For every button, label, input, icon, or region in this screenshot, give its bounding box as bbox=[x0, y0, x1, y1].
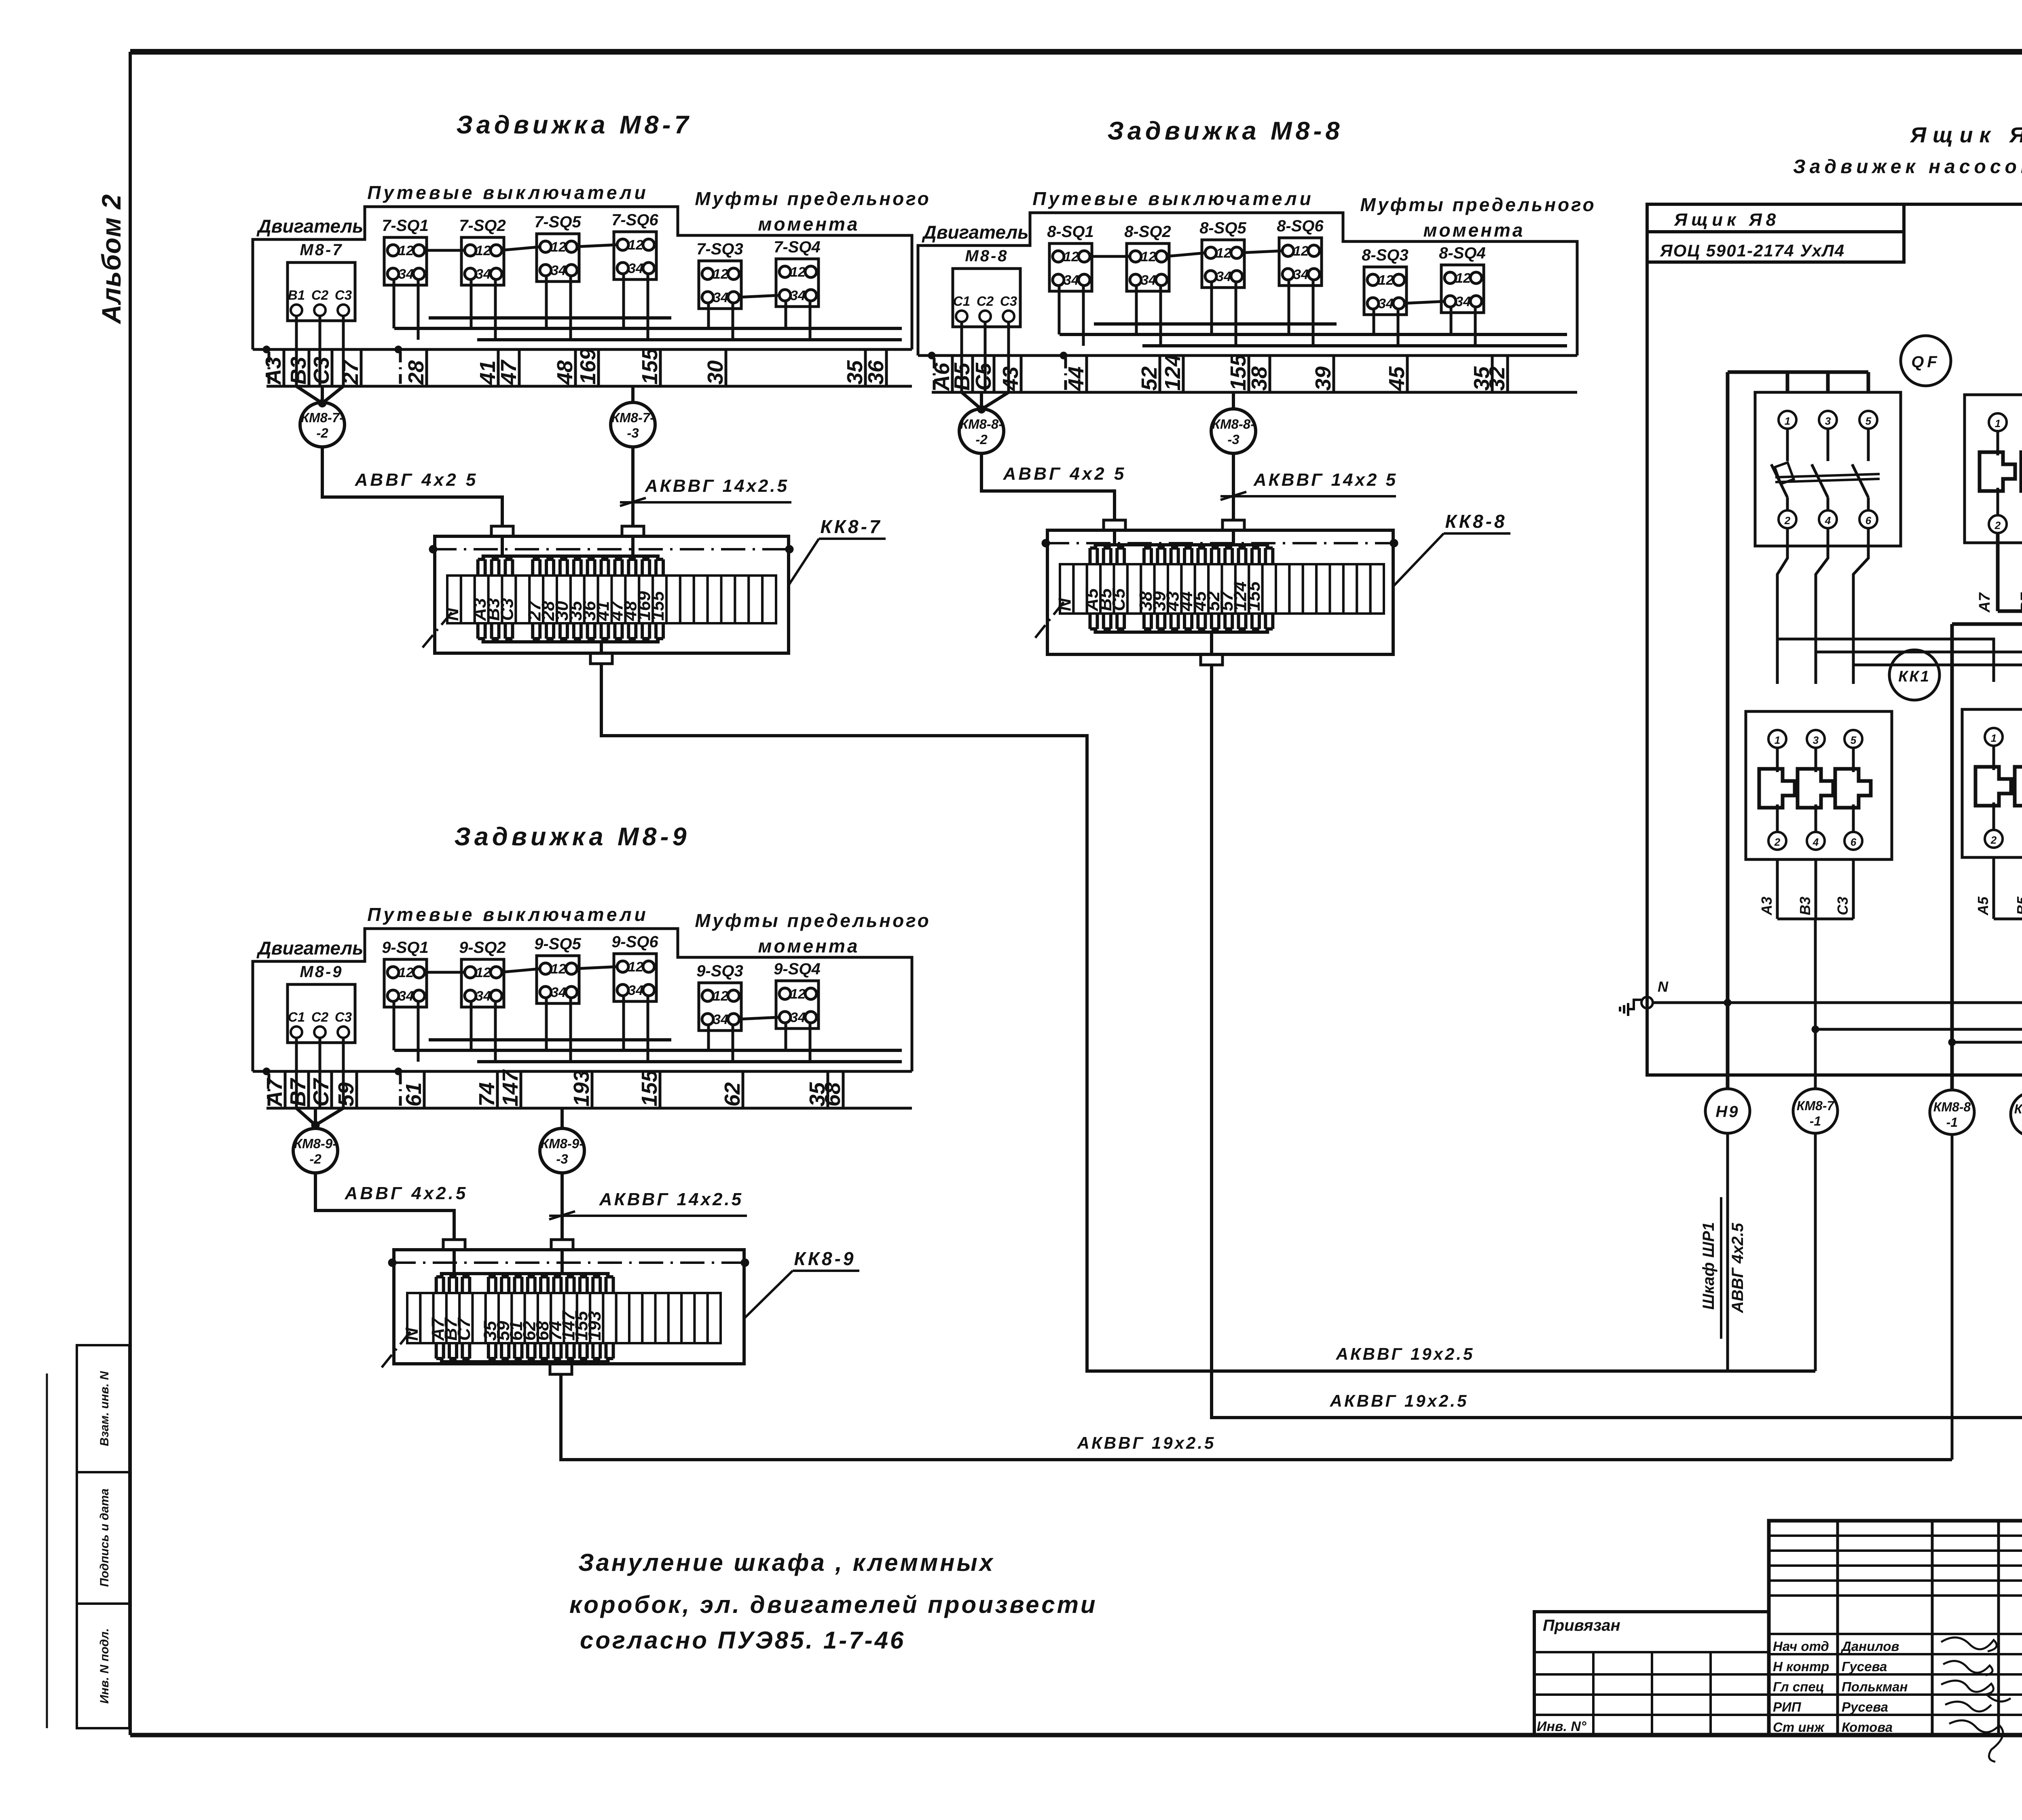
svg-text:С3: С3 bbox=[335, 288, 352, 303]
svg-text:7-SQ3: 7-SQ3 bbox=[696, 240, 743, 258]
svg-text:М8-7: М8-7 bbox=[300, 241, 343, 259]
svg-text:КК1: КК1 bbox=[1898, 668, 1931, 685]
svg-text:АКВВГ 19х2.5: АКВВГ 19х2.5 bbox=[1330, 1391, 1469, 1410]
svg-text:АВВГ 4х2.5: АВВГ 4х2.5 bbox=[1729, 1223, 1747, 1313]
svg-text:N: N bbox=[1658, 978, 1669, 995]
svg-text:12: 12 bbox=[713, 988, 728, 1004]
svg-text:Гусева: Гусева bbox=[1842, 1659, 1887, 1674]
svg-text:2: 2 bbox=[1784, 514, 1791, 527]
svg-text:Нач отд: Нач отд bbox=[1773, 1639, 1829, 1654]
svg-text:-2: -2 bbox=[309, 1151, 321, 1166]
svg-text:59: 59 bbox=[334, 1082, 358, 1107]
svg-text:124: 124 bbox=[1161, 354, 1185, 391]
svg-text:КМ8-9-: КМ8-9- bbox=[294, 1136, 337, 1151]
svg-text:155: 155 bbox=[637, 1070, 662, 1107]
svg-text:8-SQ2: 8-SQ2 bbox=[1124, 223, 1171, 241]
svg-text:2: 2 bbox=[1774, 836, 1781, 848]
svg-text:6: 6 bbox=[1851, 836, 1857, 848]
svg-text:39: 39 bbox=[1311, 366, 1335, 391]
svg-text:АВВГ 4х2 5: АВВГ 4х2 5 bbox=[1003, 464, 1127, 484]
svg-text:43: 43 bbox=[998, 366, 1023, 391]
svg-text:12: 12 bbox=[713, 267, 728, 282]
svg-text:-3: -3 bbox=[1227, 432, 1239, 447]
svg-text:АКВВГ 19х2.5: АКВВГ 19х2.5 bbox=[1336, 1344, 1475, 1363]
svg-text:7-SQ4: 7-SQ4 bbox=[774, 238, 821, 256]
svg-text:С3: С3 bbox=[1834, 897, 1851, 915]
svg-text:С3: С3 bbox=[497, 598, 517, 621]
svg-text:С5: С5 bbox=[1109, 588, 1129, 611]
svg-text:Полькман: Полькман bbox=[1842, 1679, 1908, 1694]
svg-text:А7: А7 bbox=[1976, 592, 1993, 613]
svg-text:согласно ПУЭ85. 1-7-46: согласно ПУЭ85. 1-7-46 bbox=[580, 1627, 905, 1654]
svg-text:Котова: Котова bbox=[1842, 1720, 1893, 1735]
svg-text:12: 12 bbox=[1293, 243, 1309, 259]
svg-text:34: 34 bbox=[551, 263, 566, 278]
svg-text:С3: С3 bbox=[335, 1009, 352, 1024]
svg-text:Н контр: Н контр bbox=[1773, 1659, 1829, 1674]
svg-text:А5: А5 bbox=[1975, 896, 1991, 916]
svg-text:АВВГ 4х2.5: АВВГ 4х2.5 bbox=[345, 1183, 468, 1203]
svg-text:3: 3 bbox=[1825, 415, 1831, 427]
svg-text:34: 34 bbox=[1216, 269, 1231, 284]
svg-text:5: 5 bbox=[1865, 415, 1872, 427]
svg-text:В3: В3 bbox=[1797, 897, 1813, 915]
svg-text:27: 27 bbox=[338, 359, 363, 385]
svg-text:В3: В3 bbox=[286, 357, 311, 385]
svg-text:Альбом 2: Альбом 2 bbox=[96, 194, 126, 325]
svg-text:С5: С5 bbox=[971, 362, 996, 391]
svg-text:12: 12 bbox=[1455, 271, 1471, 286]
svg-text:Путевые выключатели: Путевые выключатели bbox=[1032, 188, 1314, 209]
svg-text:КМ8-8: КМ8-8 bbox=[1933, 1100, 1971, 1114]
svg-text:С3: С3 bbox=[1000, 294, 1017, 309]
svg-text:АКВВГ 14х2.5: АКВВГ 14х2.5 bbox=[599, 1189, 743, 1209]
svg-text:30: 30 bbox=[703, 360, 728, 385]
svg-text:Двигатель: Двигатель bbox=[256, 938, 364, 959]
svg-text:КК8-9: КК8-9 bbox=[794, 1248, 856, 1269]
svg-text:момента: момента bbox=[1423, 220, 1525, 241]
svg-text:9-SQ2: 9-SQ2 bbox=[459, 939, 506, 957]
svg-text:34: 34 bbox=[398, 988, 414, 1004]
svg-text:В7: В7 bbox=[286, 1077, 310, 1107]
svg-text:34: 34 bbox=[1378, 296, 1394, 311]
svg-text:КМ8-7-: КМ8-7- bbox=[301, 410, 344, 425]
svg-text:34: 34 bbox=[1064, 273, 1079, 288]
svg-text:32: 32 bbox=[1485, 366, 1509, 391]
svg-text:Путевые выключатели: Путевые выключатели bbox=[367, 904, 649, 925]
svg-text:12: 12 bbox=[398, 965, 414, 980]
svg-text:52: 52 bbox=[1137, 366, 1161, 391]
svg-text:169: 169 bbox=[576, 348, 600, 385]
svg-text:34: 34 bbox=[476, 267, 491, 282]
svg-text:12: 12 bbox=[628, 237, 643, 253]
svg-text:12: 12 bbox=[628, 959, 643, 975]
svg-text:68: 68 bbox=[821, 1082, 845, 1107]
svg-text:8-SQ4: 8-SQ4 bbox=[1439, 244, 1486, 262]
svg-text:С2: С2 bbox=[311, 288, 329, 303]
svg-text:Задвижка М8-8: Задвижка М8-8 bbox=[1107, 117, 1343, 145]
svg-text:КК8-8: КК8-8 bbox=[1445, 511, 1507, 532]
svg-text:QF: QF bbox=[1911, 353, 1940, 371]
svg-text:Путевые выключатели: Путевые выключатели bbox=[367, 182, 649, 203]
svg-text:12: 12 bbox=[551, 239, 566, 255]
svg-text:7-SQ1: 7-SQ1 bbox=[382, 217, 429, 235]
svg-text:Задвижек насосов песколо: Задвижек насосов песколовок bbox=[1793, 156, 2022, 178]
svg-text:1: 1 bbox=[1775, 734, 1780, 746]
svg-text:В5: В5 bbox=[950, 362, 974, 391]
svg-text:В1: В1 bbox=[288, 288, 305, 303]
svg-text:В5: В5 bbox=[2014, 896, 2022, 915]
svg-text:35: 35 bbox=[843, 360, 867, 385]
svg-text:Шкаф ШР1: Шкаф ШР1 bbox=[1700, 1222, 1717, 1310]
svg-text:момента: момента bbox=[758, 935, 859, 957]
svg-text:34: 34 bbox=[476, 988, 491, 1004]
svg-text:74: 74 bbox=[475, 1082, 499, 1107]
svg-text:34: 34 bbox=[628, 983, 643, 998]
svg-text:1: 1 bbox=[1991, 732, 1997, 744]
svg-text:4: 4 bbox=[1813, 836, 1819, 848]
svg-text:34: 34 bbox=[1455, 294, 1471, 309]
svg-text:3: 3 bbox=[1813, 734, 1819, 746]
svg-text:Инв. N подл.: Инв. N подл. bbox=[98, 1628, 111, 1704]
svg-text:2: 2 bbox=[1995, 519, 2001, 531]
svg-text:8-SQ1: 8-SQ1 bbox=[1047, 223, 1094, 241]
svg-text:8-SQ3: 8-SQ3 bbox=[1362, 246, 1409, 264]
svg-text:Данилов: Данилов bbox=[1840, 1639, 1899, 1654]
svg-text:38: 38 bbox=[1247, 366, 1271, 391]
svg-text:155: 155 bbox=[1226, 354, 1250, 391]
svg-text:12: 12 bbox=[1378, 273, 1394, 288]
svg-text:155: 155 bbox=[1244, 581, 1264, 611]
svg-text:С1: С1 bbox=[288, 1009, 305, 1024]
svg-text:С1: С1 bbox=[953, 294, 970, 309]
svg-text:45: 45 bbox=[1385, 366, 1409, 391]
svg-text:9-SQ6: 9-SQ6 bbox=[611, 933, 658, 951]
svg-text:34: 34 bbox=[398, 267, 414, 282]
svg-text:12: 12 bbox=[398, 243, 414, 258]
svg-text:АКВВГ 19х2.5: АКВВГ 19х2.5 bbox=[1077, 1433, 1216, 1452]
svg-text:РИП: РИП bbox=[1773, 1699, 1802, 1714]
svg-text:193: 193 bbox=[585, 1311, 605, 1341]
svg-text:7-SQ6: 7-SQ6 bbox=[611, 211, 658, 229]
svg-text:Зануление шкафа , клеммных: Зануление шкафа , клеммных bbox=[578, 1549, 995, 1576]
svg-text:Н9: Н9 bbox=[1715, 1103, 1739, 1121]
svg-text:КМ8-8-: КМ8-8- bbox=[960, 417, 1003, 432]
svg-text:12: 12 bbox=[476, 243, 491, 258]
svg-text:Инв. N°: Инв. N° bbox=[1537, 1719, 1586, 1734]
svg-text:С7: С7 bbox=[309, 1077, 333, 1107]
svg-text:6: 6 bbox=[1865, 514, 1872, 527]
svg-text:12: 12 bbox=[790, 265, 806, 280]
svg-text:7-SQ5: 7-SQ5 bbox=[534, 213, 581, 231]
svg-text:9-SQ3: 9-SQ3 bbox=[696, 962, 743, 980]
svg-text:9-SQ1: 9-SQ1 bbox=[382, 939, 429, 957]
svg-text:155: 155 bbox=[638, 348, 662, 385]
svg-text:7-SQ2: 7-SQ2 bbox=[459, 217, 506, 235]
svg-text:155: 155 bbox=[648, 591, 668, 621]
svg-text:12: 12 bbox=[1216, 245, 1231, 261]
svg-text:А3: А3 bbox=[1758, 897, 1775, 916]
svg-text:34: 34 bbox=[628, 261, 643, 276]
svg-text:КМ8-9-: КМ8-9- bbox=[541, 1136, 584, 1151]
svg-text:Муфты предельного: Муфты предельного bbox=[695, 910, 931, 931]
svg-text:КМ8-8-: КМ8-8- bbox=[1212, 417, 1255, 432]
svg-text:С7: С7 bbox=[454, 1317, 474, 1341]
svg-text:коробок, эл. двигателей прои: коробок, эл. двигателей произвести bbox=[569, 1591, 1098, 1618]
svg-text:А7: А7 bbox=[262, 1077, 287, 1107]
svg-text:АКВВГ 14х2.5: АКВВГ 14х2.5 bbox=[645, 476, 789, 496]
svg-text:4: 4 bbox=[1825, 514, 1831, 527]
svg-text:47: 47 bbox=[497, 359, 521, 385]
svg-text:5: 5 bbox=[1851, 734, 1857, 746]
svg-text:С2: С2 bbox=[311, 1009, 329, 1024]
svg-text:-2: -2 bbox=[975, 432, 988, 447]
svg-text:-1: -1 bbox=[1810, 1114, 1821, 1128]
svg-text:Привязан: Привязан bbox=[1543, 1617, 1620, 1634]
svg-text:2: 2 bbox=[1990, 834, 1997, 846]
svg-text:Муфты предельного: Муфты предельного bbox=[695, 188, 931, 209]
svg-text:9-SQ5: 9-SQ5 bbox=[534, 935, 581, 953]
svg-text:62: 62 bbox=[720, 1082, 745, 1107]
svg-text:1: 1 bbox=[1995, 417, 2001, 430]
svg-text:44: 44 bbox=[1064, 366, 1088, 391]
svg-text:34: 34 bbox=[713, 1012, 728, 1027]
svg-text:34: 34 bbox=[713, 290, 728, 305]
svg-text:-3: -3 bbox=[556, 1151, 568, 1166]
svg-text:АВВГ 4х2 5: АВВГ 4х2 5 bbox=[355, 470, 478, 490]
svg-text:Взам. инв. N: Взам. инв. N bbox=[98, 1371, 111, 1446]
svg-text:-3: -3 bbox=[627, 425, 639, 440]
svg-text:12: 12 bbox=[476, 965, 491, 980]
svg-text:ЯОЦ 5901-2174 УхЛ4: ЯОЦ 5901-2174 УхЛ4 bbox=[1660, 241, 1845, 260]
svg-text:С2: С2 bbox=[977, 294, 994, 309]
svg-text:Ст инж: Ст инж bbox=[1773, 1720, 1825, 1735]
svg-text:9-SQ4: 9-SQ4 bbox=[774, 960, 821, 978]
svg-text:Русева: Русева bbox=[1842, 1699, 1888, 1714]
svg-text:34: 34 bbox=[1141, 273, 1156, 288]
svg-text:193: 193 bbox=[569, 1070, 594, 1107]
svg-text:С3: С3 bbox=[309, 357, 334, 385]
svg-text:8-SQ5: 8-SQ5 bbox=[1199, 219, 1246, 237]
svg-text:41: 41 bbox=[476, 360, 500, 385]
svg-text:КМ8-7-: КМ8-7- bbox=[611, 410, 654, 425]
svg-text:КМ8-9: КМ8-9 bbox=[2014, 1102, 2022, 1116]
svg-text:8-SQ6: 8-SQ6 bbox=[1277, 217, 1324, 235]
svg-text:Двигатель: Двигатель bbox=[922, 222, 1029, 243]
svg-text:34: 34 bbox=[790, 288, 806, 303]
svg-text:61: 61 bbox=[402, 1082, 426, 1107]
svg-text:Муфты предельного: Муфты предельного bbox=[1360, 194, 1596, 215]
svg-text:-1: -1 bbox=[1946, 1115, 1958, 1130]
svg-text:момента: момента bbox=[758, 214, 859, 235]
svg-text:М8-8: М8-8 bbox=[965, 247, 1008, 265]
svg-text:12: 12 bbox=[1064, 249, 1079, 265]
svg-text:КК8-7: КК8-7 bbox=[820, 516, 882, 537]
svg-text:Ящик Я8: Ящик Я8 bbox=[1910, 123, 2022, 147]
svg-text:Гл спец: Гл спец bbox=[1773, 1679, 1824, 1694]
svg-text:Ящик Я8: Ящик Я8 bbox=[1674, 210, 1780, 230]
svg-text:Задвижка М8-9: Задвижка М8-9 bbox=[454, 823, 690, 851]
svg-text:36: 36 bbox=[864, 360, 888, 385]
svg-text:-2: -2 bbox=[316, 425, 328, 440]
svg-text:М8-9: М8-9 bbox=[300, 963, 343, 981]
svg-text:34: 34 bbox=[551, 985, 566, 1000]
svg-text:1: 1 bbox=[1785, 415, 1790, 427]
svg-text:12: 12 bbox=[1141, 249, 1156, 265]
svg-text:12: 12 bbox=[790, 986, 806, 1002]
svg-text:Двигатель: Двигатель bbox=[256, 216, 364, 237]
svg-text:А3: А3 bbox=[261, 357, 286, 385]
svg-text:147: 147 bbox=[498, 1069, 522, 1107]
svg-text:28: 28 bbox=[404, 360, 428, 385]
svg-text:АКВВГ 14х2 5: АКВВГ 14х2 5 bbox=[1253, 470, 1398, 490]
svg-text:Задвижка М8-7: Задвижка М8-7 bbox=[456, 111, 692, 139]
svg-text:12: 12 bbox=[551, 961, 566, 977]
svg-text:34: 34 bbox=[790, 1010, 806, 1025]
svg-text:48: 48 bbox=[553, 360, 577, 385]
svg-text:34: 34 bbox=[1293, 267, 1309, 282]
svg-text:Подпись и дата: Подпись и дата bbox=[98, 1488, 111, 1587]
svg-text:КМ8-7: КМ8-7 bbox=[1797, 1098, 1835, 1113]
